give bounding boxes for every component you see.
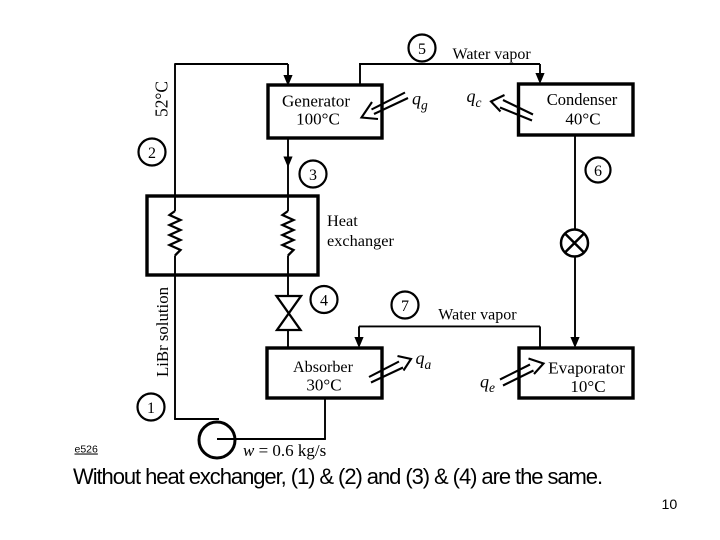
wire: left riser (52C / LiBr solution line) — [174, 63, 176, 419]
svg-text:4: 4 — [320, 292, 328, 309]
wire: lower water vapor line to absorber — [359, 325, 540, 327]
svg-text:6: 6 — [594, 163, 602, 180]
evaporator box — [519, 348, 633, 398]
expansion valve circle-X — [561, 230, 588, 257]
arrowhead into condenser top — [535, 73, 544, 84]
coil (right zigzag) — [283, 211, 294, 256]
wire: condenser to expansion valve circle — [574, 135, 576, 230]
heat arrow q_a (open arrow out of absorber) — [369, 356, 411, 383]
wire: absorber bottom to pump line — [324, 398, 326, 439]
heat arrow q_g (open arrow into generator) — [362, 93, 409, 120]
svg-text:e526: e526 — [75, 444, 99, 456]
svg-text:40°C: 40°C — [565, 109, 600, 128]
svg-text:LiBr solution: LiBr solution — [153, 286, 172, 377]
svg-text:Absorber: Absorber — [293, 359, 354, 376]
node 7 circle — [392, 292, 419, 319]
arrowhead into absorber top — [354, 337, 363, 348]
wire: valve to absorber — [287, 330, 289, 348]
wire: HX to expansion valve (stream 4) — [287, 275, 289, 296]
svg-text:100°C: 100°C — [296, 110, 340, 129]
svg-text:Water vapor: Water vapor — [438, 306, 517, 323]
svg-text:10: 10 — [662, 497, 678, 513]
svg-text:Condenser: Condenser — [547, 90, 618, 109]
wire: top horizontal water vapor line to condenser — [359, 63, 540, 65]
svg-text:exchanger: exchanger — [327, 231, 394, 250]
pump circle — [199, 422, 235, 458]
svg-text:Evaporator: Evaporator — [548, 359, 625, 378]
svg-text:Water vapor: Water vapor — [453, 46, 532, 63]
svg-text:Without heat exchanger, (1) &: Without heat exchanger, (1) & (2) and (3… — [73, 464, 602, 489]
wire: top-left horizontal from left riser to generator inlet — [175, 63, 288, 65]
svg-text:52°C: 52°C — [152, 81, 172, 117]
condenser box — [519, 84, 634, 135]
coil (left zigzag) — [170, 211, 181, 256]
heat arrow q_c (open arrow out of condenser) — [491, 95, 533, 121]
svg-text:10°C: 10°C — [570, 377, 605, 396]
wire: pump outlet horizontal — [217, 438, 326, 440]
svg-text:2: 2 — [148, 145, 156, 162]
heat arrow q_e (open arrow into evaporator) — [500, 359, 544, 386]
node 5 circle — [409, 35, 436, 62]
absorber box — [267, 348, 382, 398]
svg-text:1: 1 — [147, 400, 155, 417]
svg-text:Heat: Heat — [327, 211, 358, 230]
pump outlet radius line — [217, 438, 236, 440]
wire: valve to evaporator — [574, 257, 576, 341]
arrowhead into generator top — [283, 75, 292, 86]
svg-text:7: 7 — [401, 298, 409, 315]
wire: generator inlet drop — [287, 64, 289, 78]
wire through HX left — [174, 196, 176, 275]
node 2 circle — [139, 139, 166, 166]
wire: evaporator vapor stub up — [539, 326, 541, 348]
svg-text:3: 3 — [309, 167, 317, 184]
arrowhead mid stream 3 — [283, 157, 292, 168]
wire: condenser inlet drop — [539, 64, 541, 76]
throttling valve bowtie — [277, 296, 302, 330]
wire through HX right — [287, 196, 289, 275]
node 3 circle — [300, 161, 327, 188]
wire: absorber inlet drop — [358, 326, 360, 340]
generator box — [268, 85, 382, 138]
svg-text:30°C: 30°C — [306, 376, 341, 395]
node 4 circle — [311, 286, 338, 313]
wire: left riser elbow to pump — [174, 418, 219, 420]
node 6 circle — [586, 158, 611, 183]
svg-text:w = 0.6 kg/s: w = 0.6 kg/s — [243, 441, 326, 460]
wire: generator to heat exchanger (stream 3) — [287, 138, 289, 196]
svg-text:5: 5 — [418, 41, 426, 58]
node 1 circle — [138, 394, 165, 421]
wire: generator vapor stub up — [359, 63, 361, 85]
arrowhead into evaporator top — [570, 337, 579, 348]
svg-text:Generator: Generator — [282, 91, 350, 110]
heat exchanger box — [147, 196, 318, 275]
